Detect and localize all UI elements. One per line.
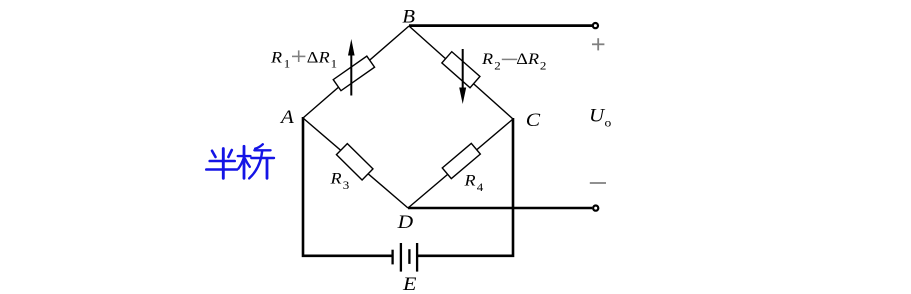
svg-text:B: B [402,7,415,28]
svg-text:R: R [527,50,540,68]
svg-text:R: R [270,48,283,66]
svg-text:E: E [402,273,417,294]
wire A-B [303,26,409,118]
wire B to + terminal [409,24,592,27]
label R2 - dR2 [481,50,546,72]
svg-text:R: R [329,169,342,187]
wire B-C [409,26,513,119]
svg-text:1: 1 [331,57,338,70]
svg-text:Δ: Δ [307,48,319,66]
svg-text:4: 4 [477,181,484,194]
svg-text:Δ: Δ [516,50,528,68]
resistor R2 body [442,52,480,88]
label R1 + dR1 [270,48,337,70]
blue caption "half bridge" char BAN [206,149,237,179]
svg-text:C: C [526,110,541,131]
svg-text:R: R [318,48,331,66]
svg-text:U: U [589,105,606,126]
wire A-D [303,118,408,208]
terminal circle top [593,23,598,28]
svg-text:3: 3 [343,178,350,191]
blue caption "half bridge" char QIAO [238,144,274,178]
resistor R3 body [336,144,373,180]
svg-text:A: A [279,107,295,128]
svg-text:R: R [481,50,494,68]
arrow through R1 (up) [348,39,355,96]
resistor R1 body [333,56,374,91]
wire C down and bottom-right [417,118,513,256]
battery E plates [393,243,418,272]
label R3 [329,169,349,191]
wire D-C [408,119,513,208]
resistor R4 body [442,143,480,178]
label R4 [463,172,483,194]
svg-text:2: 2 [494,59,501,72]
label U_o [589,105,611,129]
svg-text:D: D [397,212,414,233]
svg-text:R: R [463,172,476,190]
minus sign near bottom terminal [590,182,606,184]
plus sign near top terminal [592,38,604,50]
svg-text:o: o [605,116,612,129]
svg-text:2: 2 [540,59,547,72]
wire A down and bottom-left [303,117,392,256]
svg-text:1: 1 [284,57,291,70]
wire D to - terminal [408,207,592,210]
terminal circle bottom [593,206,598,211]
arrow through R2 (down) [459,49,466,104]
